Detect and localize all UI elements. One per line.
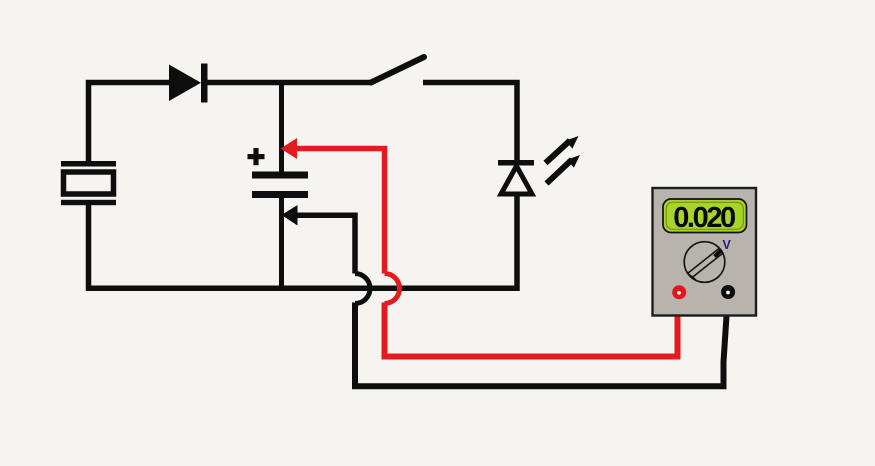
switch S1 (open lever): [371, 57, 424, 83]
red test lead wire (upper run): [294, 149, 385, 274]
black probe jack: [721, 285, 735, 299]
black test lead wire (upper run): [294, 215, 355, 273]
diode D1: [169, 64, 208, 103]
wire: capacitor positive lead from top rail: [279, 80, 284, 173]
red probe jack: [672, 285, 686, 299]
black test lead wire (lower run to meter COM jack): [355, 293, 728, 386]
wire: piezo bottom lead, bottom rail, LED cathode branch: [89, 194, 518, 289]
wire: diode cathode to switch pivot: [205, 80, 371, 86]
multimeter rotary dial: [684, 242, 725, 283]
wire: capacitor negative lead to bottom rail: [279, 197, 284, 291]
capacitor polarity mark +: [248, 148, 265, 165]
dial pointer: [715, 251, 722, 257]
capacitor C1 plates: [252, 172, 308, 199]
red test lead wire (lower run to meter V jack): [385, 294, 678, 357]
svg-text:0.020: 0.020: [673, 202, 735, 234]
svg-text:V: V: [723, 238, 732, 252]
black wire hop over bottom rail: [355, 274, 370, 304]
wire: switch contact to LED anode (top right corner): [423, 83, 517, 161]
multimeter LCD display: [663, 199, 747, 233]
piezo element B1 (crystal symbol): [61, 161, 116, 205]
red wire hop over bottom rail: [385, 274, 400, 304]
red probe arrow at capacitor + terminal: [281, 138, 298, 159]
black probe arrow at capacitor - terminal: [282, 205, 298, 226]
LED emission arrow (upper): [546, 136, 579, 163]
LED emission arrow (lower): [547, 155, 581, 184]
wire: left branch (piezo top lead, top rail to diode anode): [89, 83, 172, 164]
LED D2: [498, 160, 534, 194]
multimeter M1 body: [653, 188, 757, 316]
